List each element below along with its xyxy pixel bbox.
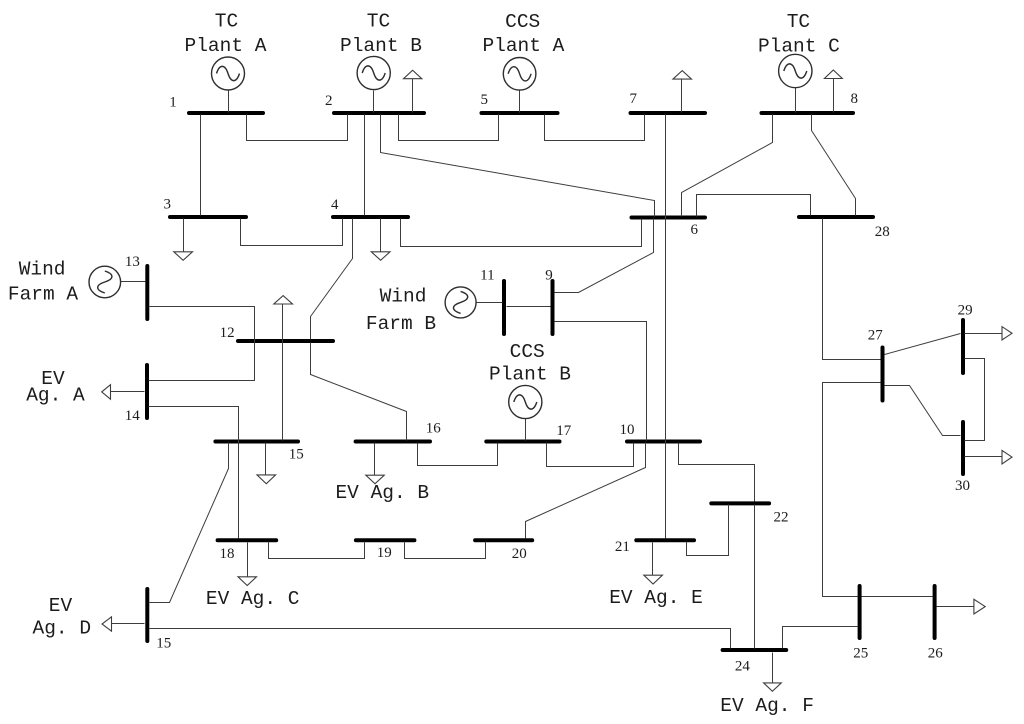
svg-text:CCS: CCS	[510, 341, 545, 363]
load arrow bus 24 (down)	[764, 653, 782, 692]
svg-text:4: 4	[331, 197, 339, 213]
wire bus17-bus10	[547, 443, 634, 467]
svg-text:15: 15	[156, 636, 171, 652]
load arrow bus 21 (down)	[644, 543, 663, 585]
wire bus18-bus19	[269, 542, 365, 559]
svg-text:EV Ag. F: EV Ag. F	[720, 695, 814, 717]
wire bus25-bus26	[862, 596, 933, 598]
svg-text:28: 28	[875, 224, 890, 240]
svg-text:TC: TC	[367, 11, 390, 33]
load arrow bus 14 EV Ag. A (left)	[102, 385, 145, 400]
bus 4 (busbar)	[333, 215, 408, 219]
load arrow bus 7 (up)	[673, 71, 692, 113]
wire bus5-bus7	[545, 115, 645, 141]
wire bus29-bus30	[965, 359, 985, 441]
generator TC Plant B	[357, 56, 390, 89]
svg-text:18: 18	[220, 546, 235, 562]
wire bus2-bus6	[381, 115, 655, 217]
bus 18 (busbar)	[218, 538, 277, 542]
wire bus6-bus28	[697, 195, 811, 217]
svg-text:1: 1	[169, 95, 177, 111]
bus 15 (busbar)	[215, 440, 298, 444]
svg-text:27: 27	[868, 328, 884, 344]
wire bus1-bus3	[200, 115, 202, 216]
bus 19 (busbar)	[356, 538, 415, 542]
wire bus8-bus6	[682, 115, 773, 217]
load arrow bus 12 (up)	[274, 296, 293, 341]
svg-text:16: 16	[426, 421, 442, 437]
wire bus19-bus20	[405, 542, 486, 559]
svg-text:EV Ag. C: EV Ag. C	[206, 588, 300, 610]
bus 12 (busbar)	[238, 339, 333, 343]
wire bus15D-bus24	[150, 629, 731, 649]
wire bus6-bus9	[555, 219, 654, 293]
bus 30 (busbar)	[961, 422, 965, 474]
wire bus12-bus15 (load stem)	[282, 305, 284, 441]
generator CCS Plant A	[503, 58, 536, 91]
bus 17 (busbar)	[486, 440, 559, 444]
wire bus3-bus4	[241, 219, 343, 246]
bus 21 (busbar)	[636, 538, 694, 542]
svg-text:TC: TC	[787, 11, 810, 33]
wire bus10-bus22	[679, 443, 755, 502]
load arrow bus 26 (right)	[937, 599, 986, 614]
svg-text:7: 7	[629, 91, 637, 107]
wire bus8-bus28	[812, 115, 856, 216]
svg-text:Plant A: Plant A	[185, 35, 267, 57]
bus 20 (busbar)	[475, 538, 532, 542]
generator TC Plant A	[212, 57, 245, 90]
load arrow bus 29 (right)	[965, 327, 1013, 340]
bus 13 (busbar)	[145, 266, 149, 319]
svg-text:9: 9	[545, 268, 553, 284]
wire gen TC Plant C to bus 8	[795, 88, 797, 113]
wire bus13-bus12-bus14	[149, 307, 255, 381]
wire bus27-bus29	[885, 334, 961, 355]
bus 8 (busbar)	[762, 111, 854, 115]
svg-text:5: 5	[480, 92, 488, 108]
bus 1 (busbar)	[189, 111, 263, 115]
load arrow bus 16 (down)	[366, 443, 384, 484]
wire bus7-bus10-bus21	[665, 115, 667, 539]
bus 27 (busbar)	[881, 348, 885, 401]
wire bus22-bus24	[754, 505, 756, 649]
load arrow bus 15D EV Ag. D (left)	[102, 617, 145, 631]
wire bus12-bus16	[311, 343, 407, 441]
svg-text:EV Ag. E: EV Ag. E	[609, 587, 703, 609]
svg-text:21: 21	[615, 539, 630, 555]
load arrow bus 8 (up)	[824, 70, 842, 113]
svg-text:26: 26	[928, 646, 944, 662]
wire bus28-bus27	[823, 219, 881, 360]
bus 10 (busbar)	[627, 440, 700, 444]
load arrow bus 2 (up)	[404, 70, 422, 112]
svg-text:17: 17	[556, 423, 572, 439]
bus 2 (busbar)	[334, 111, 424, 115]
svg-text:Plant B: Plant B	[340, 35, 422, 57]
svg-text:Ag. D: Ag. D	[33, 618, 92, 640]
wire gen CCS Plant B to bus 17	[525, 419, 527, 441]
bus 5 (busbar)	[482, 111, 558, 115]
svg-text:30: 30	[955, 478, 970, 494]
svg-text:15: 15	[289, 447, 304, 463]
svg-text:Plant C: Plant C	[758, 36, 840, 58]
load arrow bus 3 (down)	[174, 219, 193, 261]
svg-text:24: 24	[735, 659, 751, 675]
bus 9 (busbar)	[551, 281, 555, 334]
wire bus15-bus15D	[150, 443, 229, 603]
wire bus4-bus6	[401, 219, 642, 247]
svg-text:20: 20	[512, 546, 527, 562]
generator Wind Farm B	[445, 287, 476, 318]
svg-text:13: 13	[125, 254, 140, 270]
svg-text:CCS: CCS	[505, 11, 540, 33]
wire bus9-bus11	[507, 306, 551, 308]
load arrow bus 15 (down)	[257, 443, 276, 484]
bus 6 (busbar)	[632, 216, 706, 220]
generator TC Plant C	[779, 54, 812, 87]
svg-text:19: 19	[377, 545, 392, 561]
svg-text:14: 14	[125, 408, 141, 424]
wire gen Wind Farm A to bus 13	[121, 281, 146, 283]
wire bus10-bus20	[526, 443, 646, 539]
wire bus4-bus12	[311, 219, 353, 340]
svg-text:Plant B: Plant B	[489, 364, 571, 386]
svg-text:29: 29	[958, 303, 973, 319]
svg-text:Farm A: Farm A	[8, 284, 79, 306]
wire bus27-bus30	[885, 386, 961, 436]
bus 11 (busbar)	[502, 281, 506, 334]
generator Wind Farm A	[89, 266, 121, 298]
load arrow bus 18 (down)	[238, 543, 257, 586]
svg-text:Farm B: Farm B	[366, 313, 436, 335]
svg-text:Wind: Wind	[19, 259, 66, 281]
wire bus27-bus25	[823, 383, 881, 597]
wire gen TC Plant B to bus 2	[373, 91, 375, 113]
generator CCS Plant B	[509, 385, 542, 418]
svg-text:EV: EV	[49, 595, 73, 617]
wire gen CCS Plant A to bus 5	[519, 91, 521, 113]
svg-text:Wind: Wind	[380, 286, 427, 308]
svg-text:TC: TC	[215, 11, 238, 33]
bus 24 (busbar)	[723, 648, 787, 652]
bus 29 (busbar)	[961, 320, 965, 373]
svg-text:Plant A: Plant A	[482, 35, 564, 57]
bus 16 (busbar)	[356, 440, 430, 444]
wire bus14-bus15-bus18	[149, 407, 239, 539]
wire bus9-bus10	[555, 322, 647, 441]
bus 28 (busbar)	[799, 215, 873, 219]
svg-text:3: 3	[163, 197, 171, 213]
svg-text:12: 12	[220, 325, 235, 341]
load arrow bus 30 (right)	[965, 450, 1013, 464]
svg-text:11: 11	[480, 268, 494, 284]
wire bus1-bus2	[247, 115, 348, 141]
bus 15 (EV Ag. D) (busbar)	[145, 589, 149, 641]
wire bus2-bus4	[364, 115, 366, 216]
bus 26 (busbar)	[933, 586, 937, 638]
wire bus2-bus5	[399, 115, 499, 141]
svg-text:2: 2	[325, 93, 333, 109]
wire bus24-bus25	[783, 627, 858, 649]
wire bus16-bus17	[418, 443, 498, 466]
svg-text:22: 22	[774, 510, 789, 526]
svg-text:EV Ag. B: EV Ag. B	[335, 482, 429, 504]
bus 14 (busbar)	[145, 365, 149, 418]
bus 3 (busbar)	[170, 215, 246, 219]
svg-text:6: 6	[690, 222, 698, 238]
load arrow bus 4 (down)	[371, 219, 390, 261]
wire bus21-bus22	[687, 505, 729, 556]
svg-text:8: 8	[850, 91, 858, 107]
svg-text:Ag. A: Ag. A	[26, 385, 85, 407]
bus 22 (busbar)	[711, 501, 769, 505]
bus 25 (busbar)	[858, 586, 862, 638]
bus 7 (busbar)	[631, 111, 706, 115]
wire gen Wind Farm B to bus 11	[477, 302, 503, 304]
wire gen TC Plant A to bus 1	[228, 91, 230, 113]
svg-text:25: 25	[853, 646, 868, 662]
svg-text:10: 10	[620, 422, 635, 438]
